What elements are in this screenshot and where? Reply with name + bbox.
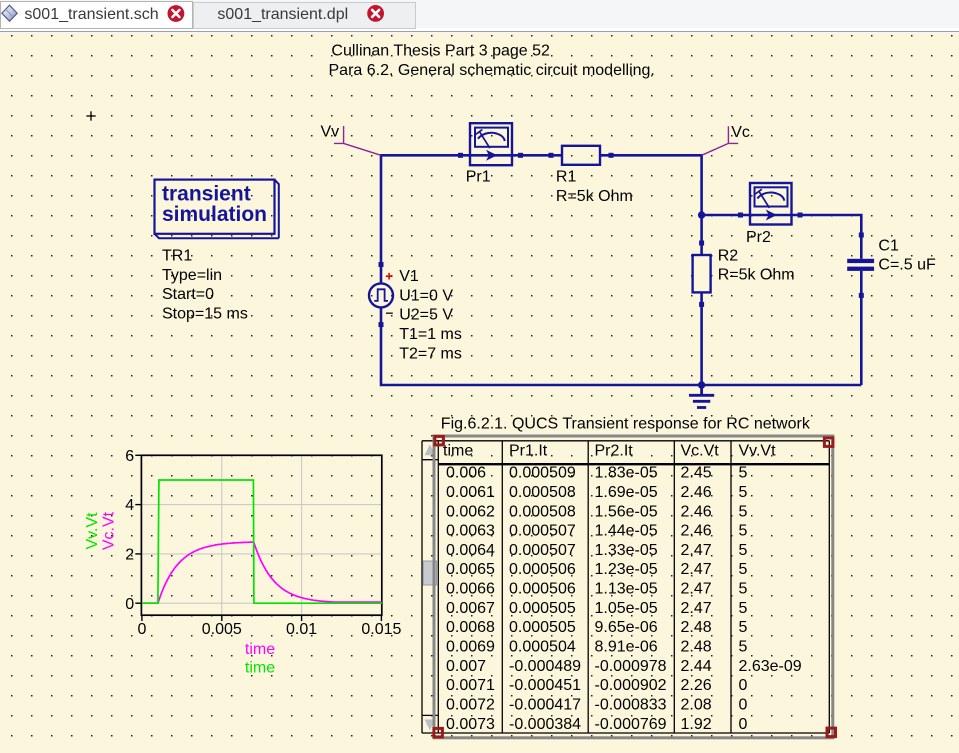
svg-text:0.000507: 0.000507	[509, 542, 576, 559]
svg-text:2: 2	[125, 547, 134, 564]
svg-text:Para 6.2. General schematic ci: Para 6.2. General schematic circuit mode…	[329, 62, 655, 79]
svg-text:0.000509: 0.000509	[509, 465, 576, 482]
plot axis ticks	[135, 455, 381, 621]
wire R2 top lead	[700, 215, 703, 255]
svg-text:0.000505: 0.000505	[509, 619, 576, 636]
x axis labels	[137, 621, 401, 638]
table data row 0.0068	[446, 619, 748, 636]
svg-text:-0.000451: -0.000451	[509, 677, 581, 694]
ground	[689, 385, 714, 408]
svg-text:4: 4	[125, 497, 134, 514]
svg-text:Fig.6.2.1. QUCS Transient resp: Fig.6.2.1. QUCS Transient response for R…	[441, 415, 811, 432]
svg-text:0.000508: 0.000508	[509, 484, 576, 501]
svg-text:2.47: 2.47	[681, 600, 712, 617]
svg-text:2.46: 2.46	[681, 503, 712, 520]
table data row 0.0065	[446, 561, 748, 578]
svg-text:1.44e-05: 1.44e-05	[595, 523, 658, 540]
wire R1 right to Vc corner and down	[600, 155, 702, 215]
table header row	[443, 443, 776, 460]
svg-text:0.007: 0.007	[446, 658, 486, 675]
table data row 0.0069	[446, 639, 748, 656]
svg-text:0: 0	[739, 716, 748, 733]
selection handle bottom-right	[827, 728, 836, 737]
svg-text:5: 5	[739, 503, 748, 520]
tab s001_transient.sch (active)	[0, 1, 193, 29]
svg-text:Pr2: Pr2	[746, 229, 771, 246]
wire port squares	[379, 153, 864, 327]
svg-text:Vv.Vt: Vv.Vt	[739, 443, 777, 460]
diagram selection frame (gray)	[434, 436, 833, 738]
svg-text:1.05e-05: 1.05e-05	[595, 600, 658, 617]
svg-text:6: 6	[125, 448, 134, 465]
svg-text:s001_transient.dpl: s001_transient.dpl	[217, 6, 348, 23]
svg-text:0.0064: 0.0064	[446, 542, 495, 559]
tab s001_transient.dpl (inactive)	[193, 2, 416, 29]
svg-text:0.000506: 0.000506	[509, 581, 576, 598]
svg-text:-0.000384: -0.000384	[509, 716, 581, 733]
svg-text:2.63e-09: 2.63e-09	[739, 658, 802, 675]
svg-text:5: 5	[739, 561, 748, 578]
plot border box	[141, 455, 381, 615]
table data row 0.0073	[446, 716, 748, 733]
svg-text:Type=lin: Type=lin	[162, 267, 222, 284]
svg-text:TR1: TR1	[162, 248, 192, 265]
document icon (diamond) in tab 1	[2, 5, 17, 21]
svg-text:Stop=15 ms: Stop=15 ms	[162, 306, 248, 323]
svg-text:0.0073: 0.0073	[446, 716, 495, 733]
scroll up arrow	[425, 444, 436, 455]
svg-text:U2=5 V: U2=5 V	[399, 307, 453, 324]
svg-text:0.015: 0.015	[361, 621, 401, 638]
wire V1 bottom to bottom rail	[381, 307, 861, 385]
svg-text:Vc: Vc	[731, 124, 750, 141]
table data row 0.0071	[446, 677, 748, 694]
svg-text:0.0068: 0.0068	[446, 619, 495, 636]
node Vc label	[702, 124, 750, 155]
svg-text:2.45: 2.45	[681, 465, 712, 482]
svg-text:1.83e-05: 1.83e-05	[595, 465, 658, 482]
svg-text:-0.000833: -0.000833	[595, 697, 667, 714]
svg-text:V1: V1	[399, 268, 419, 285]
svg-text:time: time	[245, 641, 275, 658]
table header underline	[438, 463, 829, 465]
svg-text:0.0065: 0.0065	[446, 561, 495, 578]
svg-text:0.005: 0.005	[202, 621, 242, 638]
svg-text:0.000504: 0.000504	[509, 639, 576, 656]
svg-text:0: 0	[739, 697, 748, 714]
svg-text:5: 5	[739, 523, 748, 540]
svg-text:2.46: 2.46	[681, 523, 712, 540]
current probe Pr2	[750, 183, 792, 225]
svg-text:C1: C1	[878, 237, 899, 254]
wire R2 bottom lead	[700, 292, 703, 385]
svg-text:5: 5	[739, 639, 748, 656]
scroll down arrow	[425, 720, 436, 731]
svg-text:5: 5	[739, 542, 748, 559]
selection handle top-left	[435, 436, 444, 445]
svg-text:1.69e-05: 1.69e-05	[595, 484, 658, 501]
svg-text:R1: R1	[556, 169, 577, 186]
svg-text:Vv: Vv	[321, 124, 340, 141]
svg-text:Vv.Vt: Vv.Vt	[84, 512, 101, 550]
svg-text:Pr1: Pr1	[466, 169, 491, 186]
svg-text:0.000505: 0.000505	[509, 600, 576, 617]
svg-text:1.33e-05: 1.33e-05	[595, 542, 658, 559]
svg-text:2.08: 2.08	[681, 697, 712, 714]
svg-text:0.000507: 0.000507	[509, 523, 576, 540]
table black frame and column lines	[422, 441, 829, 733]
svg-text:5: 5	[739, 619, 748, 636]
resistor R2	[693, 255, 711, 292]
label R2 value	[718, 247, 795, 283]
table data row 0.0061	[446, 484, 748, 501]
svg-text:1.13e-05: 1.13e-05	[595, 581, 658, 598]
svg-text:-0.000417: -0.000417	[509, 697, 581, 714]
table data row 0.006	[446, 465, 748, 482]
svg-text:T1=1 ms: T1=1 ms	[399, 326, 462, 343]
selection handle top-right	[824, 438, 833, 447]
svg-text:time: time	[245, 660, 275, 677]
table data row 0.0072	[446, 697, 748, 714]
node Vv label	[321, 124, 382, 156]
svg-text:0.0063: 0.0063	[446, 523, 495, 540]
svg-text:0.0072: 0.0072	[446, 697, 495, 714]
svg-text:0.000506: 0.000506	[509, 561, 576, 578]
svg-text:5: 5	[739, 600, 748, 617]
svg-text:R=5k Ohm: R=5k Ohm	[556, 188, 633, 205]
svg-text:Cullinan Thesis Part 3 page 52: Cullinan Thesis Part 3 page 52	[331, 43, 550, 60]
y axis labels	[125, 448, 134, 613]
table scroll strip	[422, 441, 438, 733]
svg-text:Start=0: Start=0	[162, 286, 214, 303]
wire C1 bottom lead	[860, 271, 863, 385]
svg-text:0.000508: 0.000508	[509, 503, 576, 520]
svg-text:2.47: 2.47	[681, 542, 712, 559]
svg-text:C=.5 uF: C=.5 uF	[878, 257, 936, 274]
svg-text:Vc.Vt: Vc.Vt	[681, 443, 720, 460]
svg-text:0.0066: 0.0066	[446, 581, 495, 598]
curve Vc.Vt (magenta)	[142, 542, 382, 603]
svg-text:R2: R2	[718, 247, 739, 264]
svg-text:2.46: 2.46	[681, 484, 712, 501]
tab 1 close button	[168, 5, 185, 22]
svg-text:0.0069: 0.0069	[446, 639, 495, 656]
cursor cross marker	[86, 111, 95, 120]
svg-text:-0.000978: -0.000978	[595, 658, 667, 675]
svg-text:1.92: 1.92	[681, 716, 712, 733]
svg-text:1.56e-05: 1.56e-05	[595, 503, 658, 520]
svg-text:-0.000769: -0.000769	[595, 716, 667, 733]
svg-text:1.23e-05: 1.23e-05	[595, 561, 658, 578]
wire Pr2 row to C1 top	[702, 215, 862, 259]
svg-text:2.47: 2.47	[681, 561, 712, 578]
svg-text:8.91e-06: 8.91e-06	[595, 639, 658, 656]
svg-text:0.0071: 0.0071	[446, 677, 495, 694]
voltage source V1 (pulse)	[369, 283, 393, 307]
svg-text:2.48: 2.48	[681, 619, 712, 636]
selection handle bottom-left	[434, 728, 443, 737]
table data row 0.0064	[446, 542, 748, 559]
svg-text:Pr1.It: Pr1.It	[509, 443, 548, 460]
table data row 0.0063	[446, 523, 748, 540]
wire junction node dots	[698, 211, 705, 388]
label C1 value	[878, 237, 936, 273]
svg-text:2.47: 2.47	[681, 581, 712, 598]
svg-text:0.01: 0.01	[286, 621, 317, 638]
TR1 parameter labels	[162, 248, 248, 323]
current probe Pr1	[470, 123, 512, 165]
svg-text:5: 5	[739, 465, 748, 482]
svg-text:T2=7 ms: T2=7 ms	[399, 345, 462, 362]
svg-text:-0.000902: -0.000902	[595, 677, 667, 694]
svg-text:5: 5	[739, 484, 748, 501]
svg-text:9.65e-06: 9.65e-06	[595, 619, 658, 636]
svg-text:2.44: 2.44	[681, 658, 712, 675]
svg-text:Vc.Vt: Vc.Vt	[101, 511, 118, 550]
transient simulation block TR1	[155, 180, 279, 239]
svg-text:0.0062: 0.0062	[446, 503, 495, 520]
svg-text:0: 0	[125, 596, 134, 613]
svg-text:Pr2.It: Pr2.It	[595, 443, 634, 460]
table data row 0.0066	[446, 581, 748, 598]
svg-text:2.48: 2.48	[681, 639, 712, 656]
svg-text:R=5k Ohm: R=5k Ohm	[718, 267, 795, 284]
V1 parameter labels	[399, 268, 462, 362]
svg-text:0.006: 0.006	[446, 465, 486, 482]
tab 2 close button	[367, 5, 384, 22]
plot gridlines	[141, 455, 381, 615]
svg-text:s001_transient.sch: s001_transient.sch	[24, 6, 158, 23]
capacitor C1	[847, 259, 874, 271]
svg-text:-0.000489: -0.000489	[509, 658, 581, 675]
svg-text:time: time	[443, 443, 473, 460]
resistor R1	[562, 146, 600, 165]
table data row 0.007	[446, 658, 802, 675]
tab bar	[0, 0, 959, 33]
svg-text:simulation: simulation	[162, 203, 267, 226]
table data row 0.0067	[446, 600, 748, 617]
svg-text:0: 0	[137, 621, 146, 638]
svg-text:5: 5	[739, 581, 748, 598]
svg-text:U1=0 V: U1=0 V	[399, 287, 453, 304]
curve Vv.Vt (green)	[142, 480, 382, 603]
svg-text:0.0067: 0.0067	[446, 600, 495, 617]
svg-text:0: 0	[739, 677, 748, 694]
scroll thumb	[423, 561, 436, 585]
wire top horizontal (Vv node to R1)	[381, 155, 861, 385]
svg-text:2.26: 2.26	[681, 677, 712, 694]
svg-text:0.0061: 0.0061	[446, 484, 495, 501]
label R1 value	[556, 169, 633, 205]
table data row 0.0062	[446, 503, 748, 520]
